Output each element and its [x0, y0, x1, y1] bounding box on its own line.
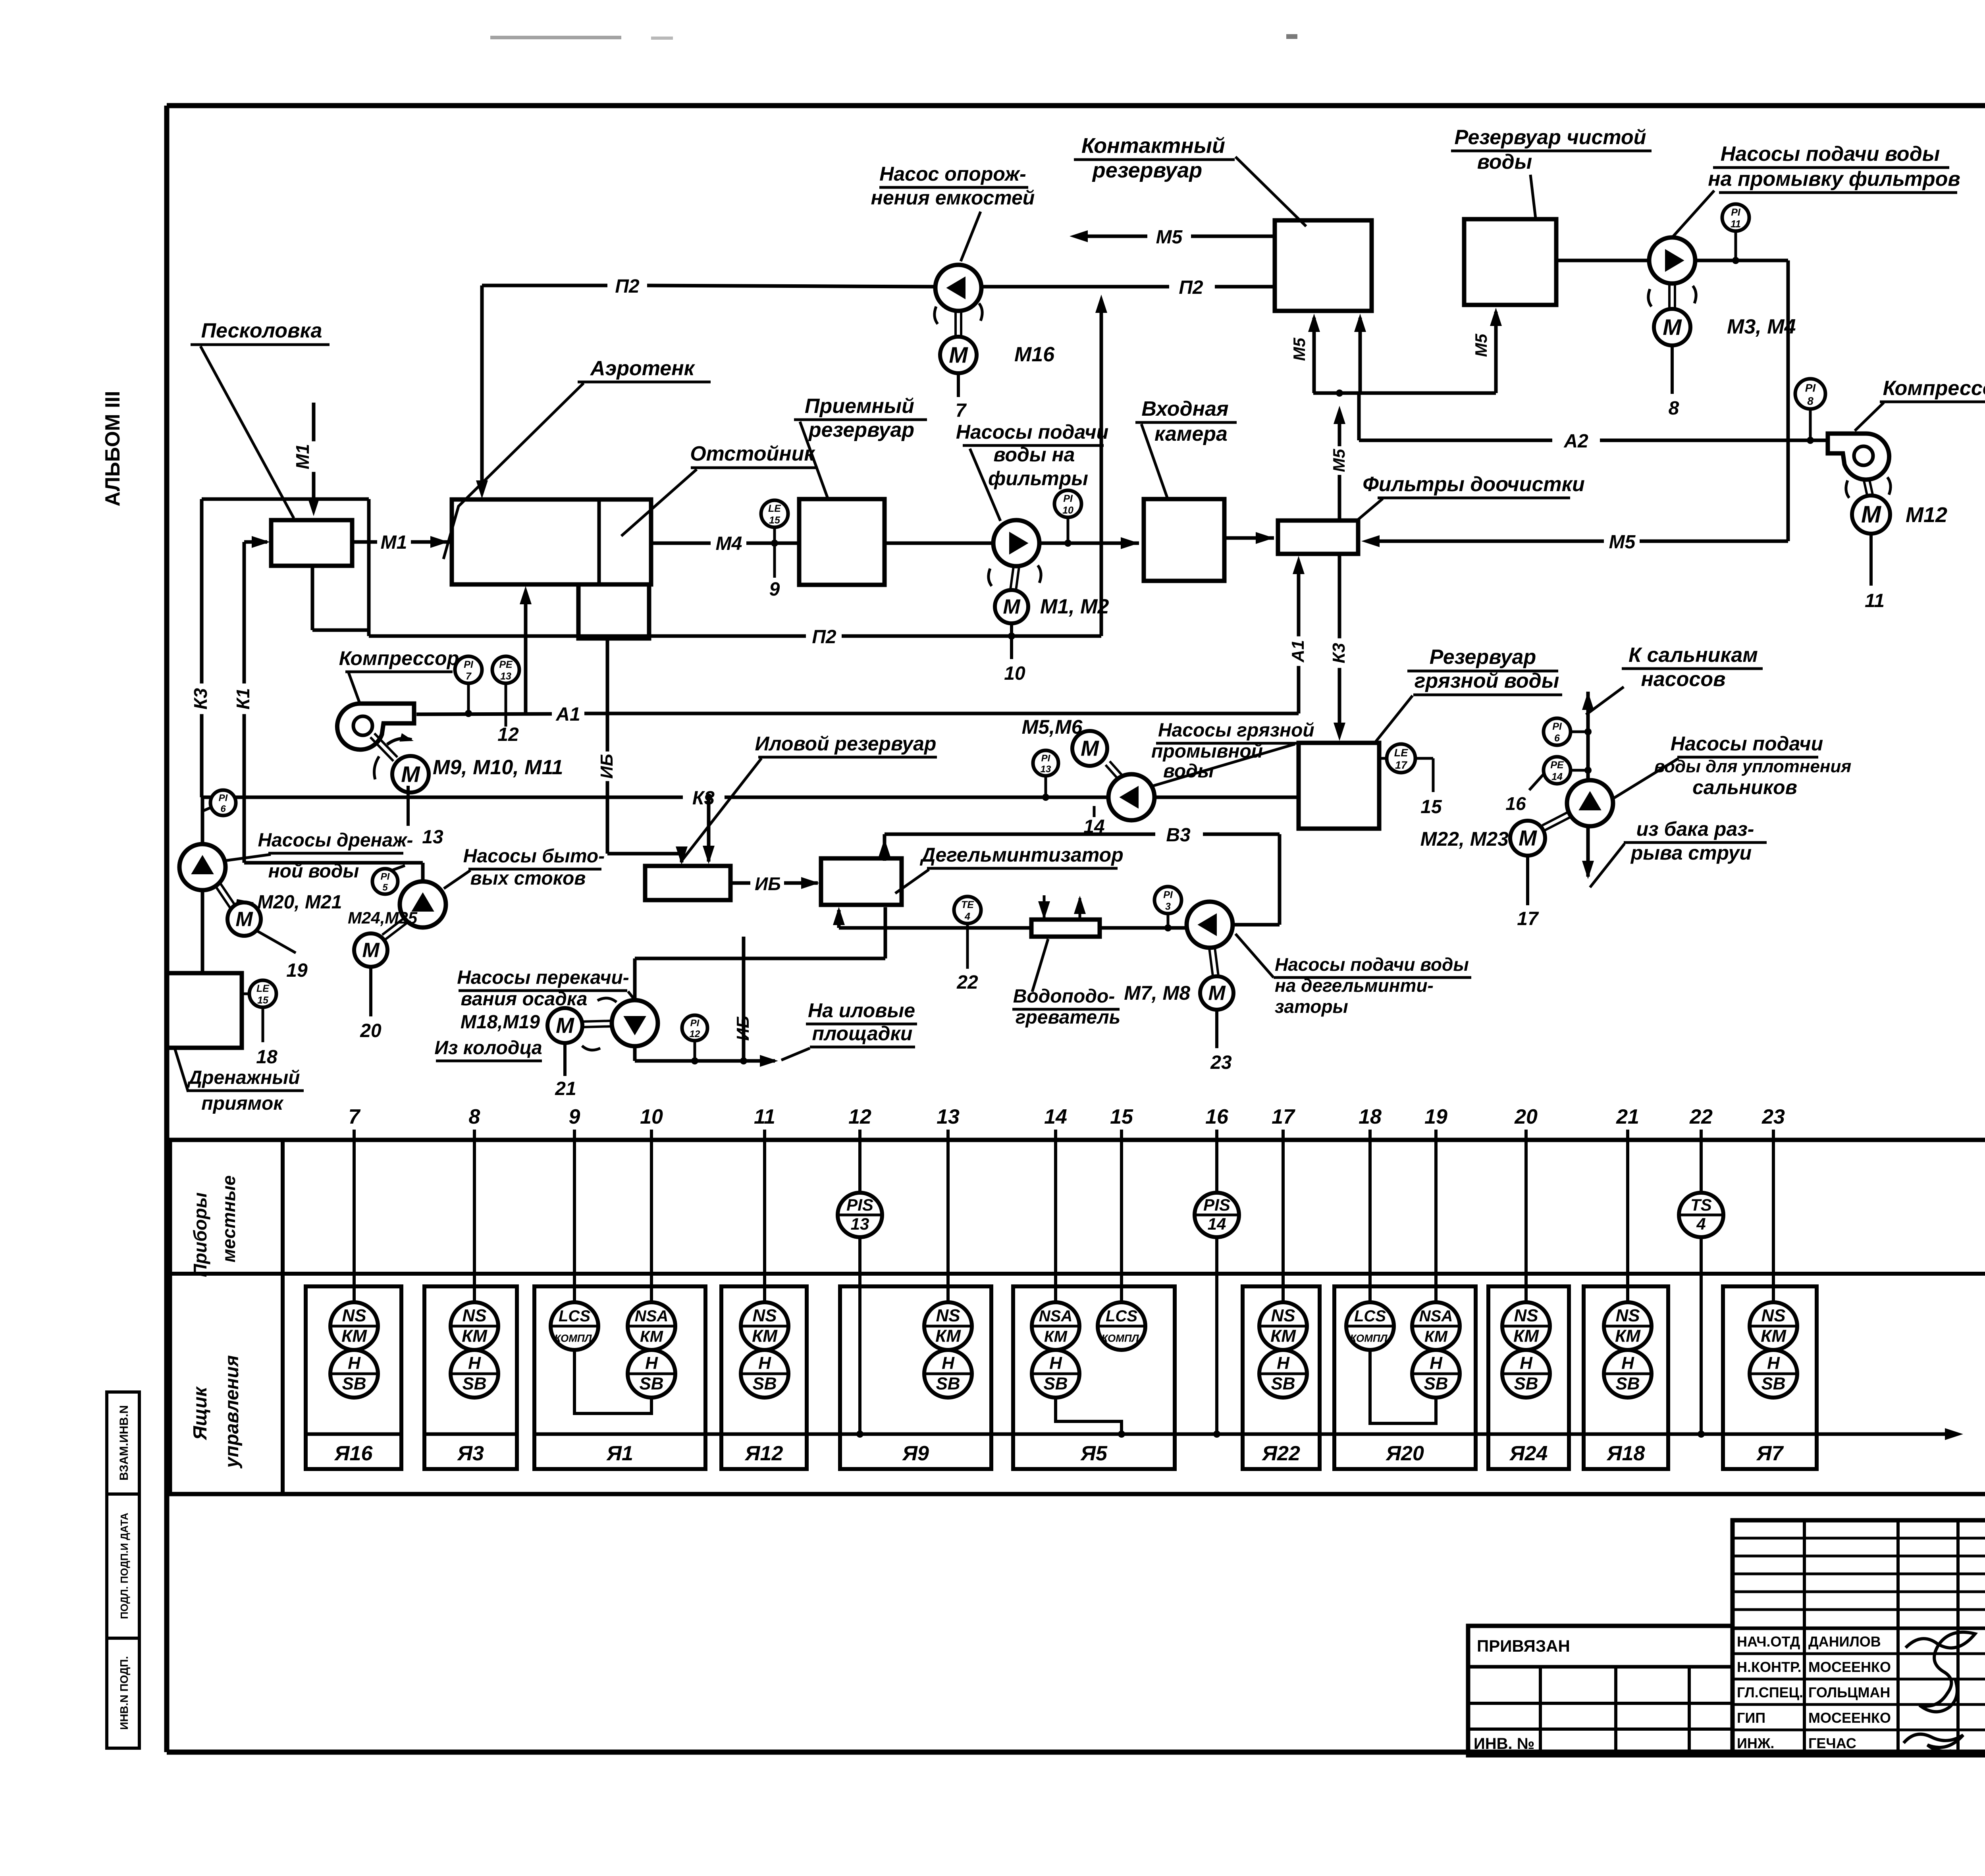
svg-text:12: 12	[497, 724, 519, 745]
svg-text:М: М	[362, 939, 380, 962]
svg-text:NS: NS	[1271, 1306, 1295, 1325]
svg-text:Входная: Входная	[1141, 397, 1228, 420]
svg-text:18: 18	[256, 1047, 278, 1068]
svg-text:М5: М5	[1609, 532, 1636, 553]
svg-text:КМ: КМ	[1513, 1327, 1539, 1346]
svg-text:заторы: заторы	[1275, 996, 1348, 1017]
svg-text:Я5: Я5	[1080, 1442, 1108, 1465]
svg-text:14: 14	[1044, 1105, 1067, 1128]
svg-text:Аэротенк: Аэротенк	[590, 357, 696, 380]
svg-text:Компрессор: Компрессор	[1883, 377, 1985, 400]
svg-text:Н: Н	[348, 1353, 361, 1373]
svg-text:М5: М5	[1156, 227, 1183, 248]
svg-text:NSA: NSA	[1419, 1307, 1453, 1325]
svg-text:6: 6	[1554, 733, 1560, 744]
svg-text:ной воды: ной воды	[268, 861, 359, 882]
svg-text:АЛЬБОМ III: АЛЬБОМ III	[101, 391, 124, 507]
svg-text:М18,М19: М18,М19	[461, 1012, 540, 1033]
svg-text:П2: П2	[812, 627, 836, 648]
svg-text:NS: NS	[1514, 1306, 1538, 1325]
svg-text:PI: PI	[1041, 753, 1051, 764]
svg-text:М: М	[949, 342, 968, 368]
svg-text:Насосы подачи: Насосы подачи	[1671, 733, 1823, 755]
svg-text:К3: К3	[1329, 643, 1349, 663]
svg-text:Приборы: Приборы	[190, 1192, 210, 1277]
svg-text:LCS: LCS	[559, 1307, 590, 1325]
svg-text:В3: В3	[1166, 825, 1191, 846]
svg-text:воды: воды	[1477, 150, 1532, 174]
svg-text:12: 12	[848, 1105, 871, 1128]
svg-text:М: М	[1519, 825, 1537, 850]
svg-text:ГОЛЬЦМАН: ГОЛЬЦМАН	[1808, 1684, 1890, 1701]
svg-text:PI: PI	[1552, 721, 1562, 732]
svg-text:КМ: КМ	[341, 1327, 367, 1346]
svg-text:13: 13	[851, 1215, 869, 1233]
svg-text:приямок: приямок	[201, 1093, 284, 1114]
svg-text:PIS: PIS	[1203, 1195, 1230, 1214]
svg-text:14: 14	[1208, 1215, 1226, 1233]
svg-text:4: 4	[1696, 1215, 1706, 1233]
svg-text:М: М	[1663, 314, 1682, 340]
svg-text:ПРИВЯЗАН: ПРИВЯЗАН	[1477, 1637, 1570, 1655]
svg-text:А1: А1	[555, 704, 580, 725]
svg-text:М: М	[1861, 501, 1882, 528]
svg-text:вых стоков: вых стоков	[470, 868, 586, 889]
svg-text:К1: К1	[233, 688, 253, 710]
svg-text:П2: П2	[615, 276, 640, 297]
svg-text:Н: Н	[645, 1353, 658, 1373]
svg-text:КМ: КМ	[752, 1327, 778, 1346]
svg-text:ДАНИЛОВ: ДАНИЛОВ	[1808, 1633, 1881, 1650]
svg-text:NS: NS	[752, 1306, 777, 1325]
svg-text:22: 22	[956, 972, 978, 993]
svg-text:15: 15	[769, 515, 781, 526]
svg-text:Я9: Я9	[902, 1442, 929, 1465]
svg-text:Водоподо-: Водоподо-	[1013, 986, 1115, 1007]
svg-text:17: 17	[1517, 908, 1539, 929]
svg-text:Н.КОНТР.: Н.КОНТР.	[1737, 1659, 1802, 1675]
svg-text:ИНЖ.: ИНЖ.	[1737, 1735, 1774, 1751]
svg-text:Насосы быто-: Насосы быто-	[463, 846, 605, 867]
svg-text:ТЕ: ТЕ	[961, 899, 974, 910]
svg-text:ИБ: ИБ	[755, 873, 781, 894]
svg-text:PI: PI	[1731, 207, 1741, 218]
svg-text:7: 7	[349, 1105, 361, 1128]
svg-text:КМ: КМ	[1615, 1327, 1641, 1346]
svg-text:10: 10	[1004, 663, 1025, 684]
svg-text:М: М	[556, 1013, 574, 1037]
svg-text:13: 13	[500, 671, 511, 682]
svg-text:А1: А1	[1288, 640, 1308, 663]
svg-text:NSA: NSA	[635, 1307, 668, 1325]
svg-text:М: М	[1208, 982, 1226, 1005]
svg-text:Насосы подачи: Насосы подачи	[956, 421, 1108, 443]
svg-text:11: 11	[1865, 590, 1885, 611]
svg-text:10: 10	[640, 1105, 663, 1128]
svg-text:NS: NS	[462, 1306, 486, 1325]
svg-text:Насосы подачи воды: Насосы подачи воды	[1721, 143, 1940, 166]
svg-text:SB: SB	[1043, 1374, 1068, 1394]
svg-text:ГЛ.СПЕЦ.: ГЛ.СПЕЦ.	[1737, 1684, 1803, 1701]
svg-text:Я22: Я22	[1261, 1442, 1300, 1465]
svg-text:PI: PI	[381, 871, 390, 882]
svg-text:9: 9	[569, 1105, 580, 1128]
svg-text:Я20: Я20	[1385, 1442, 1424, 1465]
svg-text:20: 20	[360, 1020, 382, 1041]
svg-text:Компрессор: Компрессор	[339, 647, 459, 669]
svg-text:КМ: КМ	[1270, 1327, 1296, 1346]
svg-text:SB: SB	[936, 1374, 960, 1394]
svg-text:Н: Н	[1767, 1353, 1780, 1373]
svg-text:NS: NS	[1761, 1306, 1785, 1325]
svg-text:ВЗАМ.ИНВ.N: ВЗАМ.ИНВ.N	[118, 1405, 131, 1481]
svg-text:Резервуар: Резервуар	[1430, 646, 1536, 669]
svg-text:Насосы перекачи-: Насосы перекачи-	[457, 967, 629, 988]
svg-text:местные: местные	[218, 1175, 239, 1262]
svg-text:17: 17	[1272, 1105, 1295, 1128]
svg-text:М7, М8: М7, М8	[1124, 982, 1190, 1004]
svg-text:Я3: Я3	[457, 1442, 484, 1465]
svg-text:рыва струи: рыва струи	[1630, 842, 1752, 864]
svg-text:ИНВ. №: ИНВ. №	[1474, 1735, 1534, 1753]
svg-text:Дегельминтизатор: Дегельминтизатор	[919, 844, 1124, 866]
svg-text:КМ: КМ	[1044, 1328, 1068, 1346]
svg-text:площадки: площадки	[812, 1022, 913, 1045]
svg-text:23: 23	[1761, 1105, 1785, 1128]
svg-text:М1: М1	[292, 444, 313, 469]
svg-text:20: 20	[1514, 1105, 1538, 1128]
svg-text:На иловые: На иловые	[808, 999, 915, 1022]
svg-text:К3: К3	[190, 688, 211, 710]
svg-text:Я12: Я12	[744, 1442, 783, 1465]
svg-text:PI: PI	[1163, 889, 1173, 900]
svg-text:Иловой резервуар: Иловой резервуар	[755, 733, 937, 755]
svg-text:PI: PI	[1805, 382, 1816, 394]
svg-text:КОМПЛ.: КОМПЛ.	[554, 1332, 594, 1344]
svg-text:NS: NS	[342, 1306, 366, 1325]
svg-text:ГИП: ГИП	[1737, 1710, 1765, 1726]
svg-text:Резервуар чистой: Резервуар чистой	[1454, 126, 1646, 149]
svg-text:М: М	[235, 908, 253, 931]
svg-text:14: 14	[1083, 816, 1104, 837]
svg-text:воды для уплотнения: воды для уплотнения	[1654, 757, 1852, 776]
svg-text:фильтры: фильтры	[988, 467, 1088, 490]
svg-text:М20, М21: М20, М21	[257, 892, 342, 913]
svg-text:8: 8	[1807, 395, 1813, 407]
svg-text:Насосы грязной: Насосы грязной	[1158, 720, 1314, 741]
svg-text:грязной воды: грязной воды	[1415, 669, 1559, 692]
svg-text:Фильтры доочистки: Фильтры доочистки	[1363, 473, 1585, 496]
svg-text:Я24: Я24	[1509, 1442, 1548, 1465]
svg-text:Я7: Я7	[1756, 1442, 1784, 1465]
svg-text:Н: Н	[1049, 1353, 1062, 1373]
svg-text:сальников: сальников	[1692, 776, 1797, 798]
svg-text:Н: Н	[1520, 1353, 1533, 1373]
svg-text:LE: LE	[256, 983, 270, 994]
svg-text:21: 21	[555, 1078, 576, 1099]
svg-text:7: 7	[956, 400, 967, 421]
svg-text:М5: М5	[1472, 334, 1490, 357]
svg-text:Из колодца: Из колодца	[434, 1037, 542, 1059]
svg-text:Песколовка: Песколовка	[201, 319, 322, 342]
svg-text:PI: PI	[464, 659, 474, 670]
svg-text:резервуар: резервуар	[808, 418, 914, 442]
svg-text:РЕ: РЕ	[1550, 760, 1564, 771]
svg-text:Н: Н	[942, 1353, 955, 1373]
svg-text:18: 18	[1359, 1105, 1382, 1128]
svg-text:NSA: NSA	[1039, 1307, 1072, 1325]
svg-text:Приемный: Приемный	[805, 395, 914, 418]
svg-text:3: 3	[1165, 901, 1171, 912]
svg-text:ИБ: ИБ	[597, 754, 617, 779]
svg-text:19: 19	[286, 960, 308, 981]
svg-text:М1, М2: М1, М2	[1040, 595, 1109, 618]
svg-text:Н: Н	[1277, 1353, 1290, 1373]
svg-text:Насосы дренаж-: Насосы дренаж-	[258, 830, 413, 851]
svg-text:нения емкостей: нения емкостей	[871, 187, 1035, 209]
svg-text:на промывку фильтров: на промывку фильтров	[1708, 168, 1960, 191]
svg-text:РЕ: РЕ	[499, 659, 513, 670]
svg-text:К сальникам: К сальникам	[1628, 644, 1758, 667]
svg-text:из бака раз-: из бака раз-	[1636, 818, 1754, 840]
svg-text:Ящик: Ящик	[190, 1386, 211, 1441]
svg-text:SB: SB	[1424, 1374, 1448, 1394]
svg-text:PI: PI	[1063, 493, 1073, 504]
svg-text:16: 16	[1505, 793, 1526, 814]
svg-text:М: М	[1003, 596, 1021, 619]
svg-text:SB: SB	[752, 1374, 777, 1394]
svg-text:LCS: LCS	[1106, 1307, 1137, 1325]
svg-text:ГЕЧАС: ГЕЧАС	[1808, 1735, 1856, 1751]
svg-text:PIS: PIS	[846, 1195, 873, 1214]
svg-text:22: 22	[1689, 1105, 1713, 1128]
svg-text:М12: М12	[1906, 503, 1947, 527]
svg-text:12: 12	[690, 1029, 700, 1039]
svg-text:LE: LE	[768, 503, 781, 514]
svg-text:SB: SB	[639, 1374, 663, 1394]
svg-text:8: 8	[469, 1105, 480, 1128]
svg-text:М24,М25: М24,М25	[348, 908, 418, 927]
svg-text:М5: М5	[1330, 449, 1348, 472]
svg-text:SB: SB	[1271, 1374, 1295, 1394]
svg-text:PI: PI	[219, 793, 228, 804]
svg-text:6: 6	[220, 804, 226, 814]
svg-text:М5: М5	[1290, 337, 1309, 361]
svg-text:8: 8	[1669, 398, 1679, 419]
svg-text:14: 14	[1551, 771, 1563, 782]
svg-text:SB: SB	[342, 1374, 366, 1394]
svg-text:М22, М23: М22, М23	[1420, 828, 1509, 850]
svg-text:NS: NS	[1615, 1306, 1640, 1325]
svg-text:КМ: КМ	[640, 1328, 664, 1346]
svg-text:камера: камера	[1154, 422, 1228, 445]
svg-text:М3, М4: М3, М4	[1727, 315, 1796, 338]
svg-text:11: 11	[754, 1105, 775, 1128]
svg-text:13: 13	[422, 827, 443, 848]
svg-text:Контактный: Контактный	[1081, 134, 1225, 158]
svg-text:КМ: КМ	[1424, 1328, 1448, 1346]
svg-text:управления: управления	[222, 1355, 243, 1469]
svg-text:Н: Н	[1621, 1353, 1634, 1373]
svg-text:КМ: КМ	[935, 1327, 961, 1346]
svg-text:Я1: Я1	[606, 1442, 633, 1465]
svg-text:SB: SB	[462, 1374, 486, 1394]
svg-text:15: 15	[1420, 796, 1442, 817]
svg-text:15: 15	[1110, 1105, 1133, 1128]
svg-text:КОМПЛ.: КОМПЛ.	[1350, 1332, 1390, 1344]
svg-text:ПОДЛ. ПОДП.И ДАТА: ПОДЛ. ПОДП.И ДАТА	[118, 1513, 130, 1619]
svg-text:7: 7	[466, 671, 472, 682]
svg-text:А2: А2	[1563, 431, 1588, 452]
svg-text:SB: SB	[1761, 1374, 1785, 1394]
svg-text:LE: LE	[1394, 747, 1408, 759]
svg-text:Н: Н	[468, 1353, 481, 1373]
svg-text:М16: М16	[1014, 343, 1055, 366]
svg-text:КМ: КМ	[1761, 1327, 1786, 1346]
svg-text:Насосы подачи воды: Насосы подачи воды	[1275, 954, 1469, 975]
svg-text:Отстойник: Отстойник	[690, 442, 815, 465]
svg-text:PI: PI	[690, 1018, 700, 1029]
svg-text:М5,М6: М5,М6	[1022, 716, 1083, 738]
svg-text:М9, М10, М11: М9, М10, М11	[433, 756, 563, 779]
svg-text:Насос опорож-: Насос опорож-	[879, 163, 1026, 185]
svg-text:5: 5	[382, 882, 388, 893]
svg-text:21: 21	[1616, 1105, 1639, 1128]
svg-text:13: 13	[1041, 764, 1051, 775]
svg-text:11: 11	[1731, 218, 1741, 229]
svg-text:ТS: ТS	[1690, 1195, 1712, 1214]
svg-text:КОМПЛ.: КОМПЛ.	[1101, 1332, 1141, 1344]
svg-text:насосов: насосов	[1641, 668, 1725, 691]
svg-text:резервуар: резервуар	[1092, 158, 1203, 182]
svg-text:ИНВ.N ПОДП.: ИНВ.N ПОДП.	[118, 1656, 130, 1730]
svg-text:LCS: LCS	[1354, 1307, 1386, 1325]
svg-text:SB: SB	[1514, 1374, 1538, 1394]
svg-text:Н: Н	[758, 1353, 771, 1373]
svg-text:16: 16	[1205, 1105, 1229, 1128]
svg-text:Н: Н	[1430, 1353, 1443, 1373]
svg-text:13: 13	[937, 1105, 960, 1128]
svg-text:М: М	[401, 762, 420, 787]
svg-text:23: 23	[1210, 1052, 1232, 1073]
svg-text:Я18: Я18	[1606, 1442, 1645, 1465]
svg-text:15: 15	[257, 995, 269, 1006]
svg-text:КМ: КМ	[462, 1327, 488, 1346]
svg-text:10: 10	[1062, 505, 1073, 516]
svg-text:М4: М4	[716, 533, 742, 554]
svg-text:9: 9	[769, 579, 780, 600]
svg-text:П2: П2	[1179, 277, 1203, 298]
svg-text:19: 19	[1424, 1105, 1447, 1128]
svg-text:Я16: Я16	[334, 1442, 373, 1465]
svg-text:SB: SB	[1615, 1374, 1640, 1394]
svg-text:17: 17	[1395, 759, 1408, 771]
svg-text:МОСЕЕНКО: МОСЕЕНКО	[1808, 1659, 1891, 1675]
svg-text:Дренажный: Дренажный	[187, 1067, 300, 1088]
svg-text:МОСЕЕНКО: МОСЕЕНКО	[1808, 1710, 1891, 1726]
svg-text:НАЧ.ОТД: НАЧ.ОТД	[1737, 1633, 1800, 1650]
svg-text:4: 4	[964, 911, 970, 922]
svg-text:М: М	[1081, 736, 1099, 760]
svg-text:М1: М1	[381, 532, 407, 553]
svg-text:NS: NS	[936, 1306, 960, 1325]
